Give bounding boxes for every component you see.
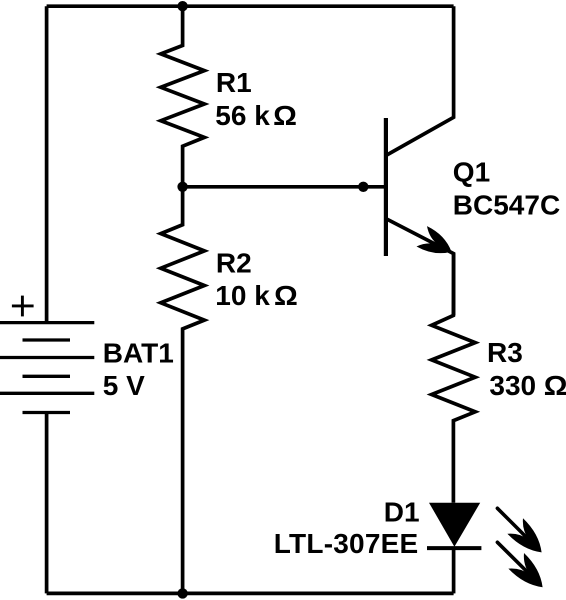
battery BAT1 plates xyxy=(0,323,94,413)
wire top rail xyxy=(47,4,454,8)
battery plate long 1 xyxy=(0,321,94,324)
LED D1 triangle xyxy=(429,503,480,547)
svg-text:R2: R2 xyxy=(216,248,252,279)
wire left rail xyxy=(45,6,49,322)
LED emission arrow 2 xyxy=(497,542,542,587)
wire LED cathode to bottom rail xyxy=(452,548,456,593)
LED emission arrow 1 xyxy=(497,508,541,552)
node dot divider xyxy=(177,182,187,192)
svg-text:Ω: Ω xyxy=(544,370,566,401)
wire battery negative stub xyxy=(45,413,49,594)
svg-text:LTL-307EE: LTL-307EE xyxy=(274,528,419,559)
svg-text:330: 330 xyxy=(489,370,536,401)
svg-text:D1: D1 xyxy=(384,496,420,527)
svg-text:56 k: 56 k xyxy=(215,100,270,131)
svg-text:R3: R3 xyxy=(487,337,523,368)
resistor R2 xyxy=(161,187,205,594)
transistor Q1 emitter xyxy=(386,219,454,316)
node dot top xyxy=(177,1,187,11)
resistor R1 xyxy=(161,6,205,187)
node dot base xyxy=(358,182,368,192)
svg-text:BC547C: BC547C xyxy=(453,190,560,221)
node dot bottom xyxy=(177,588,187,598)
svg-text:BAT1: BAT1 xyxy=(103,337,174,368)
svg-text:10 k: 10 k xyxy=(215,280,270,311)
svg-text:Q1: Q1 xyxy=(453,157,490,188)
wire base xyxy=(183,185,384,189)
svg-text:R1: R1 xyxy=(216,67,252,98)
wire bottom rail xyxy=(47,592,454,596)
resistor R3 xyxy=(432,254,476,503)
transistor Q1 collector xyxy=(386,6,454,155)
LED D1 cathode bar xyxy=(427,546,481,550)
svg-text:5 V: 5 V xyxy=(103,370,145,401)
battery plus sign xyxy=(12,296,34,317)
battery plate short 3 xyxy=(23,411,71,414)
svg-text:Ω: Ω xyxy=(273,100,297,131)
svg-text:Ω: Ω xyxy=(274,280,298,311)
battery plate long 2 xyxy=(0,356,94,359)
battery plate short 2 xyxy=(23,375,71,378)
battery plate short 1 xyxy=(23,338,71,341)
transistor Q1 base bar xyxy=(384,118,388,256)
battery plate long 3 xyxy=(0,392,94,395)
transistor Q1 emitter arrowhead xyxy=(417,226,452,253)
